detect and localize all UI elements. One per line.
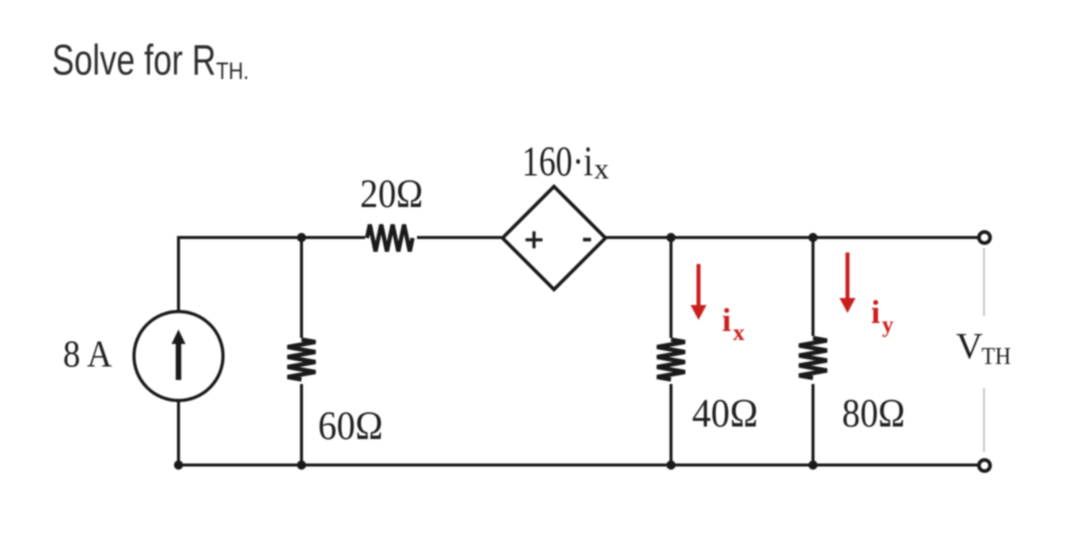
wire left vertical: [177, 236, 180, 467]
node top of 80-ohm: [808, 233, 817, 242]
svg-text:60Ω: 60Ω: [318, 403, 383, 448]
title: Solve for RTH.: [52, 37, 249, 86]
wire bottom: [179, 464, 985, 467]
terminal top: [979, 232, 990, 243]
svg-text:i: i: [722, 303, 731, 339]
dependent source U1 160*ix diamond: [503, 187, 606, 290]
dashed port line: [983, 248, 985, 452]
svg-text:80Ω: 80Ω: [842, 391, 905, 436]
label 160*ix: [522, 140, 609, 186]
resistor R4 80-ohm vertical: [799, 336, 827, 384]
svg-text:8 A: 8 A: [63, 334, 112, 376]
current source I1 8A: [134, 312, 223, 401]
node bottom of 80-ohm: [808, 460, 817, 469]
svg-text:x: x: [594, 153, 609, 186]
current arrow iy (red): [840, 253, 856, 314]
svg-text:Solve for R: Solve for R: [52, 37, 216, 85]
svg-text:160·i: 160·i: [522, 140, 593, 186]
node bottom of 60-ohm: [297, 460, 306, 469]
svg-text:40Ω: 40Ω: [692, 391, 758, 436]
svg-text:y: y: [882, 312, 894, 337]
label VTH: [956, 327, 1011, 371]
node bottom left: [174, 460, 183, 469]
wire 40-ohm branch: [670, 238, 673, 466]
svg-text:V: V: [956, 327, 983, 368]
svg-text:i: i: [871, 295, 880, 331]
node bottom of 40-ohm: [666, 460, 675, 469]
node top of 40-ohm: [666, 233, 675, 242]
wire 60-ohm branch: [300, 238, 303, 466]
svg-text:x: x: [733, 320, 745, 345]
svg-text:TH.: TH.: [216, 58, 249, 85]
terminal bottom: [979, 460, 990, 471]
resistor R2 60-ohm vertical: [288, 338, 316, 384]
resistor R3 40-ohm vertical: [657, 338, 685, 384]
svg-text:20Ω: 20Ω: [360, 171, 423, 216]
wire top: [179, 236, 985, 239]
label iy (red): [871, 295, 894, 337]
label ix (red): [722, 303, 745, 345]
svg-text:TH: TH: [982, 343, 1012, 370]
current arrow ix (red): [691, 264, 707, 320]
wire 80-ohm branch: [812, 238, 815, 466]
resistor R1 20-ohm horizontal: [365, 225, 417, 252]
node top of 60-ohm: [297, 233, 306, 242]
